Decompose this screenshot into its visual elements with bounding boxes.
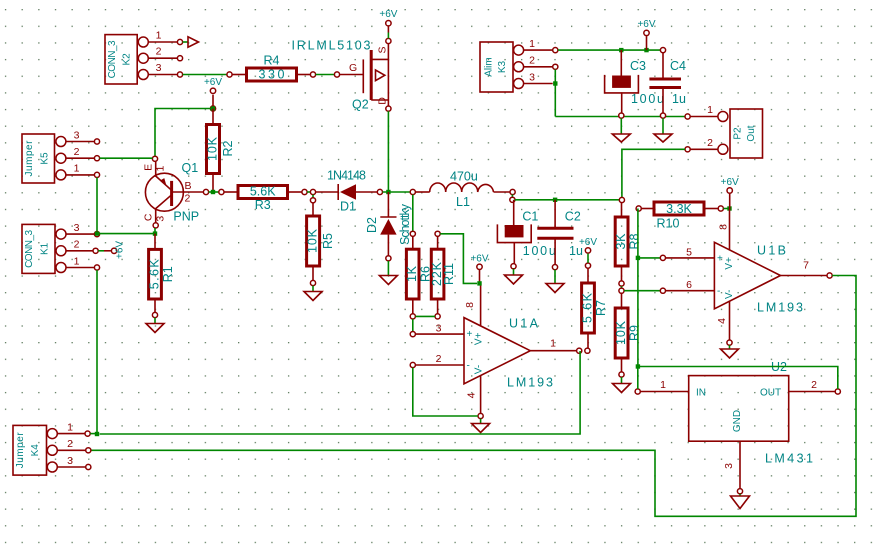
svg-text:B: B bbox=[185, 180, 192, 192]
svg-text:3K: 3K bbox=[614, 233, 628, 250]
svg-text:Q1: Q1 bbox=[182, 161, 199, 175]
resistor R9 10K bbox=[614, 293, 642, 377]
svg-text:U1A: U1A bbox=[509, 317, 539, 331]
svg-text:3: 3 bbox=[436, 322, 442, 334]
svg-text:2: 2 bbox=[67, 438, 73, 450]
wire R4 to Q2 gate bbox=[316, 72, 363, 77]
svg-text:C4: C4 bbox=[670, 59, 686, 73]
wire U1A pin2 and pin4 to ground bbox=[413, 368, 481, 423]
svg-text:4: 4 bbox=[716, 318, 728, 324]
regulator U2 LM431 bbox=[635, 360, 840, 494]
op-amp U1A LM193 bbox=[410, 283, 582, 418]
svg-text:+: + bbox=[717, 254, 723, 265]
svg-text:R1: R1 bbox=[161, 266, 175, 282]
resistor R7 5.6K bbox=[580, 263, 608, 353]
svg-text:10K: 10K bbox=[614, 320, 628, 345]
svg-text:2: 2 bbox=[529, 55, 535, 67]
+6V power symbol near K3 bbox=[637, 19, 655, 50]
wire R10 left rail down to U2 node bbox=[636, 209, 640, 369]
svg-text:2: 2 bbox=[74, 239, 80, 251]
transistor Q1 PNP bbox=[142, 161, 199, 228]
wire L1 right to output node bbox=[511, 194, 513, 197]
svg-text:Alim: Alim bbox=[484, 57, 495, 76]
wire K3 pin2/pin3 to ground rail bbox=[553, 69, 685, 116]
wire R10 right to +6V / U1B pin8 bbox=[723, 206, 731, 210]
+6V power symbol above R2 bbox=[204, 77, 222, 111]
svg-text:K2: K2 bbox=[122, 53, 133, 66]
wire L1 to R6 top bbox=[410, 195, 415, 237]
pin-end circle at C1 top bbox=[510, 197, 515, 202]
svg-text:+6V: +6V bbox=[637, 19, 655, 30]
svg-text:-: - bbox=[467, 360, 470, 371]
svg-text:8: 8 bbox=[464, 302, 476, 308]
wire K3 pin1 +6V rail bbox=[558, 48, 666, 53]
svg-text:1: 1 bbox=[707, 104, 713, 116]
svg-text:+6V: +6V bbox=[579, 237, 597, 248]
capacitor C3 100u (polarized) bbox=[605, 50, 664, 118]
svg-text:OUT: OUT bbox=[760, 388, 781, 399]
wire R11 top to U1A pin8 +6V node bbox=[440, 234, 477, 284]
svg-text:LM193: LM193 bbox=[757, 301, 803, 315]
wire K1 pin3 row to Q1 collector / R1 bbox=[97, 228, 157, 236]
wire U1A output down to K4 pin1 wire bbox=[100, 351, 580, 434]
ground below C4 bbox=[654, 118, 672, 142]
connector K2 (CONN_3) bbox=[105, 30, 183, 85]
svg-text:100u: 100u bbox=[523, 244, 556, 258]
wire R8 bottom to R9 top bbox=[619, 286, 624, 293]
resistor R1 5.6K bbox=[147, 234, 175, 318]
svg-text:1: 1 bbox=[74, 255, 80, 267]
wire K5 pin1 down to K1 pin3 row bbox=[96, 178, 98, 234]
svg-text:R9: R9 bbox=[627, 325, 641, 341]
svg-text:V+: V+ bbox=[474, 332, 485, 345]
ground below C2 bbox=[546, 270, 564, 293]
+6V power symbol at U1A pin8 bbox=[470, 254, 488, 286]
svg-text:3.3K: 3.3K bbox=[666, 202, 692, 216]
junction at Q1 base / R2 / R3 bbox=[171, 189, 224, 194]
svg-text:GND: GND bbox=[732, 410, 743, 432]
transistor Q2 IRLML5103 (P-MOSFET) bbox=[292, 38, 392, 111]
svg-text:2: 2 bbox=[436, 353, 442, 365]
svg-text:5.6K: 5.6K bbox=[250, 185, 276, 199]
capacitor C2 1u bbox=[537, 200, 583, 270]
wire U1B pin4 to ground bbox=[729, 345, 731, 348]
wire U2 pin3 to ground bbox=[739, 494, 741, 496]
wire K5 pin2 to Q1 emitter node bbox=[100, 157, 153, 159]
ground below R1 bbox=[146, 318, 164, 333]
svg-text:Jumper: Jumper bbox=[15, 432, 26, 469]
wire Q2 drain to D1/L1 node bbox=[387, 111, 389, 192]
svg-text:LM193: LM193 bbox=[507, 376, 553, 390]
resistor R4 330 bbox=[232, 54, 316, 82]
svg-text:K3: K3 bbox=[497, 60, 508, 73]
svg-text:4: 4 bbox=[465, 392, 477, 398]
svg-text:R3: R3 bbox=[255, 198, 271, 212]
wire D1 to node with Q2 drain bbox=[383, 191, 411, 193]
ground below C3 bbox=[612, 118, 630, 142]
wire K2 pin3 to R4 bbox=[183, 72, 232, 77]
diode D2 Schottky bbox=[365, 192, 412, 261]
svg-text:1u: 1u bbox=[672, 92, 686, 106]
wire U1B pin7 feedback loop to K4 pin2 bbox=[91, 276, 856, 517]
capacitor C4 1u bbox=[649, 53, 686, 119]
ground below R9 bbox=[613, 377, 631, 392]
connector K1 (CONN_3) bbox=[22, 222, 100, 274]
op-amp U1B LM193 bbox=[666, 209, 833, 346]
svg-text:+6V: +6V bbox=[115, 241, 126, 259]
svg-text:1: 1 bbox=[74, 163, 80, 175]
wire +6V node to Q1 emitter bbox=[152, 109, 213, 162]
svg-text:Schottky: Schottky bbox=[398, 203, 412, 245]
wire P2 pin2 to R8 top (feedback) bbox=[619, 149, 685, 202]
svg-text:3: 3 bbox=[723, 463, 735, 469]
svg-text:2: 2 bbox=[156, 46, 162, 58]
svg-text:Jumper: Jumper bbox=[24, 140, 35, 177]
wire U2 OUT up and left to node bbox=[640, 367, 838, 389]
svg-text:6: 6 bbox=[686, 279, 692, 291]
svg-text:10K: 10K bbox=[305, 228, 319, 253]
wire output node horizontal bbox=[515, 199, 620, 201]
svg-text:5.6K: 5.6K bbox=[580, 292, 594, 323]
svg-text:10K: 10K bbox=[205, 136, 219, 161]
junction at C2 top bbox=[553, 198, 557, 202]
junction K5 pin1 / K1 pin3 bbox=[95, 231, 99, 235]
inductor L1 470u bbox=[410, 170, 515, 210]
svg-text:1: 1 bbox=[155, 166, 167, 172]
resistor R3 5.6K bbox=[224, 185, 307, 212]
svg-text:2: 2 bbox=[811, 379, 817, 391]
connector K4 (Jumper) bbox=[13, 421, 91, 475]
svg-text:K4: K4 bbox=[30, 444, 41, 457]
junction at +6V stub bbox=[644, 48, 648, 52]
svg-text:1: 1 bbox=[156, 30, 162, 42]
ground below C1 bbox=[505, 269, 523, 284]
svg-text:V-: V- bbox=[474, 365, 485, 374]
svg-text:3: 3 bbox=[156, 62, 162, 74]
svg-text:P2: P2 bbox=[733, 127, 744, 140]
svg-text:R11: R11 bbox=[442, 263, 456, 285]
svg-text:D2: D2 bbox=[365, 217, 379, 233]
svg-text:2: 2 bbox=[74, 146, 80, 158]
svg-text:C3: C3 bbox=[630, 59, 646, 73]
ground below D2 bbox=[379, 261, 397, 285]
ground below U1B bbox=[721, 349, 739, 358]
svg-text:3: 3 bbox=[74, 129, 80, 141]
svg-text:D1: D1 bbox=[340, 199, 356, 213]
svg-text:V+: V+ bbox=[724, 257, 735, 270]
svg-text:1: 1 bbox=[550, 337, 556, 349]
svg-text:R2: R2 bbox=[221, 140, 235, 156]
svg-text:1N4148: 1N4148 bbox=[327, 169, 366, 183]
svg-text:3: 3 bbox=[74, 222, 80, 234]
wire R6/R11 bottoms to U1A pin3 bbox=[410, 316, 435, 336]
resistor R11 22K bbox=[430, 231, 456, 319]
resistor R8 3K bbox=[614, 203, 642, 287]
svg-text:L1: L1 bbox=[456, 195, 470, 209]
svg-text:S: S bbox=[376, 46, 388, 53]
svg-text:K5: K5 bbox=[40, 152, 51, 165]
junction at +6V / R2 / Q1 emitter bbox=[211, 106, 215, 110]
svg-text:100u: 100u bbox=[631, 92, 664, 106]
svg-text:+6V: +6V bbox=[470, 254, 488, 265]
+6V power symbol above R7 bbox=[579, 237, 597, 263]
svg-text:2: 2 bbox=[707, 137, 713, 149]
wire K4 pin1 stub bbox=[90, 433, 97, 435]
svg-text:R8: R8 bbox=[627, 233, 641, 249]
svg-text:CONN_3: CONN_3 bbox=[24, 229, 35, 267]
svg-text:K1: K1 bbox=[40, 242, 51, 255]
svg-text:CONN_3: CONN_3 bbox=[107, 40, 118, 78]
svg-text:Q2: Q2 bbox=[352, 98, 369, 112]
svg-text:U1B: U1B bbox=[757, 244, 786, 258]
svg-text:1: 1 bbox=[67, 421, 73, 433]
svg-text:R7: R7 bbox=[594, 300, 608, 316]
svg-text:5: 5 bbox=[686, 246, 692, 258]
svg-text:IN: IN bbox=[696, 388, 706, 399]
svg-text:C: C bbox=[142, 213, 154, 221]
wire U2 IN to node bbox=[637, 367, 639, 389]
resistor R6 1K bbox=[405, 236, 432, 319]
capacitor C1 100u (polarized) bbox=[497, 200, 555, 269]
svg-text:1K: 1K bbox=[405, 265, 419, 282]
svg-text:C2: C2 bbox=[565, 210, 581, 224]
svg-text:330: 330 bbox=[259, 68, 285, 82]
svg-text:1: 1 bbox=[660, 379, 666, 391]
diode D1 1N4148 bbox=[316, 169, 383, 214]
svg-text:R4: R4 bbox=[264, 54, 280, 68]
resistor R10 3.3K bbox=[636, 202, 723, 231]
svg-text:E: E bbox=[142, 164, 154, 171]
resistor R2 10K bbox=[205, 109, 235, 193]
svg-text:1: 1 bbox=[529, 38, 535, 50]
svg-text:IRLML5103: IRLML5103 bbox=[292, 39, 371, 53]
wire K1 pin1 down to K4 pin1 wire bbox=[95, 270, 99, 436]
svg-text:V-: V- bbox=[724, 290, 735, 299]
+6V power symbol at U1B pin8 bbox=[721, 177, 739, 209]
svg-text:Out: Out bbox=[746, 125, 757, 141]
connector K3 (Alim) bbox=[480, 38, 558, 92]
ground below R5 bbox=[304, 286, 322, 301]
wire ground rail to P2 pin1 bbox=[685, 114, 718, 119]
wire R8/R9 node to U1B pin6 bbox=[624, 288, 665, 293]
connector P2 (Out) bbox=[685, 104, 763, 158]
svg-text:+: + bbox=[467, 329, 473, 340]
output arrow marker at K2 pin 1 bbox=[183, 37, 199, 47]
svg-text:3: 3 bbox=[155, 216, 167, 222]
svg-text:+6V: +6V bbox=[204, 77, 222, 88]
svg-text:C1: C1 bbox=[522, 210, 538, 224]
svg-text:5.6K: 5.6K bbox=[147, 259, 161, 290]
junction at C3 top bbox=[619, 48, 623, 52]
resistor R5 10K bbox=[305, 203, 335, 286]
svg-text:PNP: PNP bbox=[173, 210, 199, 224]
+6V power symbol at K1 pin2 (rotated) bbox=[98, 241, 125, 259]
svg-text:R10: R10 bbox=[657, 217, 680, 231]
wire to U1B pin5 bbox=[638, 255, 666, 260]
connector K5 (Jumper) bbox=[22, 129, 100, 183]
svg-text:-: - bbox=[717, 286, 720, 297]
wire R3 to D1 / R5 bbox=[307, 189, 316, 203]
svg-text:470u: 470u bbox=[450, 170, 478, 184]
ground below U1A bbox=[472, 424, 490, 433]
svg-text:G: G bbox=[349, 62, 357, 74]
junction Q2 drain / D1 / D2 / L1 bbox=[386, 190, 390, 194]
svg-text:+6V: +6V bbox=[721, 177, 739, 188]
svg-text:R5: R5 bbox=[321, 233, 335, 249]
svg-text:7: 7 bbox=[803, 259, 809, 271]
svg-text:8: 8 bbox=[717, 224, 729, 230]
svg-text:3: 3 bbox=[67, 455, 73, 467]
ground below U2 bbox=[731, 496, 750, 509]
svg-text:3: 3 bbox=[529, 71, 535, 83]
+6V power symbol at Q2 source bbox=[379, 9, 397, 38]
svg-text:2: 2 bbox=[185, 193, 191, 205]
svg-text:+6V: +6V bbox=[379, 9, 397, 20]
